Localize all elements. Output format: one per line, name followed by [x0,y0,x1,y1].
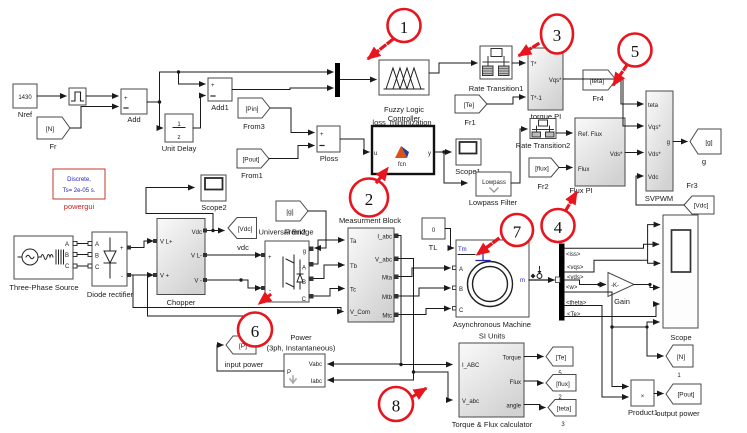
wire chopper VL- to bridge plus [205,254,261,256]
red circle 5 [619,34,652,67]
red circle 2 [350,179,388,217]
svg-text:5: 5 [631,42,640,61]
svg-text:[N]: [N] [46,126,55,133]
svg-text:Flux: Flux [510,380,521,386]
power 3ph instantaneous block (mirrored) [267,333,336,387]
svg-text:<iss>: <iss> [566,252,581,258]
wire bridge A to measurement Ta [309,240,344,264]
wire Fr2 to Flux PI Flux [559,167,572,169]
svg-text:-: - [121,274,123,280]
port squares machine inputs [453,266,457,310]
wire Fr1 to torque PI T*-1 [487,97,525,104]
svg-text:[N]: [N] [677,354,686,361]
red circle 7 [501,214,533,246]
svg-text:7: 7 [513,223,522,242]
product block Product1 [628,380,658,417]
measurement block [339,216,401,322]
from tag Fr [N] [37,117,70,151]
svg-text:Mtc: Mtc [382,314,392,320]
constant block Nref 1430 [13,84,37,119]
wire From3 to Ploss plus [270,108,314,133]
svg-text:Mtb: Mtb [382,295,393,301]
powergui block [53,169,105,211]
port squares bridge outputs [309,247,314,299]
wire step to Add plus [86,95,118,97]
wire branch to lowpass [444,152,467,183]
matlab fcn block loss_minimization [372,118,434,174]
svg-text:Torque: Torque [503,356,522,362]
wire angle out to teta tag [524,405,545,408]
svg-text:[flux]: [flux] [535,166,549,173]
svg-text:output power: output power [656,409,700,418]
svg-text:Ta: Ta [350,239,357,245]
wire bus iss to scope in2 [565,244,659,248]
svg-text:z: z [178,135,181,141]
svg-text:1: 1 [677,373,681,379]
rate transition block Rate Transition2 [516,119,571,151]
svg-text:+: + [320,132,324,138]
svg-text:Ts= 2e-05 s.: Ts= 2e-05 s. [63,188,96,194]
svg-text:Tc: Tc [350,288,356,294]
svg-text:V L+: V L+ [160,240,173,246]
wire power P out to input power tag [217,345,284,371]
svg-text:Lowpass Filter: Lowpass Filter [469,198,518,207]
svg-text:From1: From1 [241,171,263,180]
svg-text:V -: V - [194,279,202,285]
svg-text:Rate Transition2: Rate Transition2 [516,141,571,150]
wire measurement I_abc down to lower rail [398,236,401,365]
svg-text:T*-1: T*-1 [531,96,543,102]
red arrow 1 [369,40,392,58]
svg-text:Diode rectifier: Diode rectifier [87,290,134,299]
port squares diode out [127,246,131,278]
svg-text:Ref. Flux: Ref. Flux [578,132,602,138]
wire bridge B to measurement Tb [309,265,344,279]
from tag Fr4 [teta] [583,70,616,103]
svg-text:[Pout]: [Pout] [243,157,260,164]
svg-text:T*: T* [531,62,538,68]
svg-text:SI Units: SI Units [479,332,506,341]
goto tag vdc [Vdc] [228,218,257,253]
sum block Add [121,89,147,124]
goto tag [N] [666,345,693,379]
rate limiter block (step icon) [69,88,86,105]
goto tag [Te] output [546,347,573,377]
from tag Fr2 [flux] [529,158,559,191]
svg-text:V +: V + [160,274,170,280]
svg-text:Flux PI: Flux PI [569,186,592,195]
wire chopper V- to bridge minus [205,280,261,288]
svg-text:Vds*: Vds* [610,152,623,158]
wire rail to torque calc I_ABC [401,364,452,366]
svg-text:+: + [211,83,215,89]
wire bus w down to junction [565,292,629,387]
wire diode plus to chopper VL+ [131,241,153,248]
wire 1430 to step [37,95,66,97]
wire rail V_Com from chopper area [133,276,343,312]
wire Vabc rail to torque calc V_abc [414,372,453,400]
svg-text:C: C [65,264,70,270]
svg-text:powergui: powergui [64,202,95,211]
svg-text:Flux: Flux [578,167,589,173]
svg-text:Universal Bridge: Universal Bridge [258,228,313,237]
torque flux calculator block [452,343,533,429]
constant block TL 0 [422,218,445,252]
svg-text:1430: 1430 [18,95,32,101]
svg-text:A: A [302,266,306,272]
svg-text:<w>: <w> [566,285,578,291]
sum block Add1 [208,78,232,112]
svg-text:Ploss: Ploss [320,154,339,163]
svg-text:fcn: fcn [398,162,406,168]
svg-text:u: u [374,151,377,157]
svg-text:[Vdc]: [Vdc] [694,203,709,210]
red arrow 4 [566,193,576,210]
svg-text:[Pout]: [Pout] [678,392,695,399]
svg-text:<Te>: <Te> [567,312,581,318]
wire rate transition2 to Flux PI Ref [556,132,572,134]
rate transition block Rate Transition1 [469,46,524,93]
svg-text:[Te]: [Te] [464,102,475,109]
wire SVPWM g to goto tag [673,141,687,143]
wire Add1 to mux input 2 [232,88,333,90]
from tag Fr1 [Te] [455,95,487,127]
svg-text:<vqs>: <vqs> [567,265,584,271]
svg-text:-K-: -K- [611,283,619,289]
port squares chopper [153,229,265,291]
goto tag input power [P] [225,336,264,369]
wire branch up to scope in6 [647,322,659,327]
wire From2 g to bridge g input [308,211,326,248]
fuzzy logic controller block [379,60,429,123]
pid block Flux PI [569,118,625,195]
red arrow 5 [614,65,627,84]
port squares measurement outputs [394,234,399,318]
wire branch to Add1 plus [179,72,206,84]
svg-text:Add: Add [127,115,140,124]
svg-text:g: g [702,157,706,166]
svg-text:Mta: Mta [382,276,393,282]
wire bus vqs to scope in1 [565,225,660,272]
wire branch vqs to scope in3 [648,260,660,263]
svg-text:V_Com: V_Com [350,310,370,316]
svg-text:C: C [95,265,100,271]
svg-text:Fr1: Fr1 [464,118,475,127]
red circle 3 [541,15,573,54]
three-phase source block [9,236,78,292]
wire bus theta down to product1 in2 [565,306,629,398]
wire unit delay to Add1 minus [193,96,205,129]
svg-text:g: g [303,249,306,255]
svg-text:A: A [459,267,463,273]
svg-text:3: 3 [553,26,562,45]
wire rate transition1 to torque PI T* [512,62,525,64]
svg-text:vdc: vdc [237,243,249,252]
red arrow 2 [377,169,387,182]
svg-text:2: 2 [365,190,374,209]
scope block Scope [663,215,698,342]
svg-text:B: B [95,254,99,260]
svg-text:+: + [268,255,272,261]
svg-text:Vds*: Vds* [648,152,661,158]
wire bus Te to scope in5 [565,304,660,317]
svg-text:teta: teta [648,103,659,109]
svg-text:Gain: Gain [614,297,630,306]
svg-text:input power: input power [225,360,264,369]
svg-text:P: P [287,370,291,376]
wire Ploss to loss_minimization u [340,139,369,152]
diode rectifier block [87,232,134,299]
svg-text:(3ph, Instantaneous): (3ph, Instantaneous) [267,344,336,353]
universal bridge block [258,228,313,304]
gain block [608,273,634,307]
wire Add output to mux input 1 [147,72,333,102]
unit delay block [162,114,197,153]
chopper block [157,219,205,308]
wire From1 to Ploss minus [269,146,314,159]
lowpass filter block [469,172,518,207]
red circle 1 [388,9,421,42]
svg-text:8: 8 [392,397,401,416]
goto tag [Pout] output power [656,384,701,418]
red arrow 8 [412,389,425,397]
svg-text:V L-: V L- [191,254,202,260]
svg-text:[g]: [g] [286,209,293,216]
svg-text:Power: Power [290,333,312,342]
svg-text:Tb: Tb [350,264,358,270]
svg-text:3: 3 [561,422,565,428]
wire measurement Mtc to machine C [398,309,450,315]
sum block Ploss [317,126,340,163]
red circle 8 [379,387,413,421]
wire product1 to Pout tag [654,393,663,395]
wire lowpass to rate transition2 [511,129,527,183]
svg-text:[flux]: [flux] [556,381,570,388]
scope block Scope1 [455,139,481,176]
goto tag [teta] output [548,400,576,429]
wire fuzzy to rate transition1 [429,63,477,73]
svg-text:y: y [428,151,431,157]
wire chopper Vdc to vdc tag and scope2 [205,230,224,232]
wire loss_minimization y to Scope1 [434,151,451,153]
svg-text:From3: From3 [243,122,265,131]
svg-text:[g]: [g] [705,140,712,147]
mux bar [335,63,340,97]
svg-text:I_ABC: I_ABC [462,363,480,369]
svg-text:1: 1 [400,18,409,37]
wire torque PI Vqs* to SVPWM [563,79,643,126]
wire mux to fuzzy [340,79,376,81]
svg-text:Three-Phase Source: Three-Phase Source [9,283,78,292]
wire Vdc tag to SVPWM Vdc [636,176,684,205]
svg-text:Torque & Flux calculator: Torque & Flux calculator [452,420,533,429]
svg-text:Fr4: Fr4 [592,94,603,103]
svg-text:Vqs*: Vqs* [549,78,562,84]
wire torque out to Te tag [524,356,543,358]
svg-text:Lowpass: Lowpass [482,180,506,186]
svg-text:[Vdc]: [Vdc] [238,226,253,233]
svg-text:V_abc: V_abc [375,258,392,264]
svg-text:Fuzzy Logic: Fuzzy Logic [384,105,424,114]
svg-text:C: C [302,297,307,303]
wire bus vds to gain [565,280,606,285]
svg-text:Unit Delay: Unit Delay [162,144,197,153]
port squares source-diode [73,242,92,269]
wire measurement V_abc down [398,259,414,373]
wire source C to diode C [77,265,88,267]
svg-text:Product1: Product1 [628,408,658,417]
svg-text:A: A [95,242,99,248]
svg-text:6: 6 [251,322,260,341]
wire source B to diode B [77,254,88,256]
svg-text:Scope2: Scope2 [201,203,226,212]
svg-text:SVPWM: SVPWM [645,194,673,203]
red arrow 6 [260,295,270,303]
svg-text:Rate Transition1: Rate Transition1 [469,84,524,93]
svg-text:4: 4 [554,218,563,237]
svg-text:Discrete,: Discrete, [67,177,91,183]
svg-text:×: × [641,394,645,400]
from tag Fr3 [Vdc] [684,181,714,214]
wire flux out to flux tag [524,381,543,383]
wire branch to power Iabc (left) [328,372,414,380]
wire rail to power Vabc (left) [328,363,401,365]
svg-text:Scope: Scope [670,333,691,342]
svg-text:angle: angle [506,404,521,410]
wire Fr4 to SVPWM teta [616,80,643,104]
svg-text:A: A [65,242,69,248]
svg-text:+: + [124,96,128,102]
svg-text:Fr: Fr [49,142,57,151]
pid block torque PI [528,48,563,121]
wire machine m to bus selector [529,279,554,281]
svg-text:m: m [520,278,525,284]
svg-text:I_abc: I_abc [377,235,392,241]
scope block Scope2 [201,175,227,212]
svg-text:[teta]: [teta] [557,406,572,413]
svg-text:TL: TL [429,243,438,252]
wire TL to machine Tm [445,229,454,249]
svg-text:Vdc: Vdc [192,230,202,236]
wire Flux PI Vds* to SVPWM [625,152,643,154]
red arrow 3 [520,44,538,55]
svg-text:B: B [65,253,69,259]
wire w junction right to N tag branch [612,327,663,356]
wire measurement Mtb to machine B [398,288,450,296]
wire gain to scope in4 [634,285,659,288]
svg-text:Vabc: Vabc [309,362,322,368]
wire rail 2 lower [148,276,251,317]
svg-text:Add1: Add1 [211,103,229,112]
svg-text:Vqs*: Vqs* [648,125,661,131]
asynchronous machine block [453,240,531,341]
bus selector bar [559,244,565,321]
wire diode minus to chopper V+ [131,274,153,276]
svg-text:Chopper: Chopper [167,298,196,307]
svg-text:Tm: Tm [458,247,467,253]
svg-text:Fr3: Fr3 [686,181,697,190]
red circle 6 [238,313,272,347]
signal logging symbol on m wire [531,267,542,279]
from tag From3 [Pin] [238,98,270,131]
wire branch to unit delay [160,102,163,128]
red circle 4 [542,209,575,242]
svg-text:Asynchronous Machine: Asynchronous Machine [453,320,531,329]
svg-text:Iabc: Iabc [311,379,322,385]
wire measurement Mta to machine A [398,268,450,277]
wire bridge C to measurement Tc [309,289,344,297]
svg-text:Vdc: Vdc [648,175,658,181]
svg-text:[Te]: [Te] [556,355,567,362]
svg-text:V_abc: V_abc [462,399,479,405]
wire Fr to Add minus [70,107,118,129]
svpwm block [645,91,673,203]
goto tag g [g] [690,129,721,166]
goto tag [flux] output [546,375,576,402]
svg-text:g: g [667,140,670,146]
red arrow 7 [478,239,498,254]
junction dots top-left [158,100,161,103]
svg-text:Fr2: Fr2 [537,182,548,191]
from tag From1 [Pout] [237,149,269,180]
wire source A to diode A [77,243,88,245]
svg-text:C: C [459,308,464,314]
svg-text:[Pin]: [Pin] [245,106,258,113]
svg-text:+: + [120,246,124,252]
svg-text:B: B [459,287,463,293]
from tag From2 [g] [276,201,308,237]
svg-text:Nref: Nref [18,110,33,119]
